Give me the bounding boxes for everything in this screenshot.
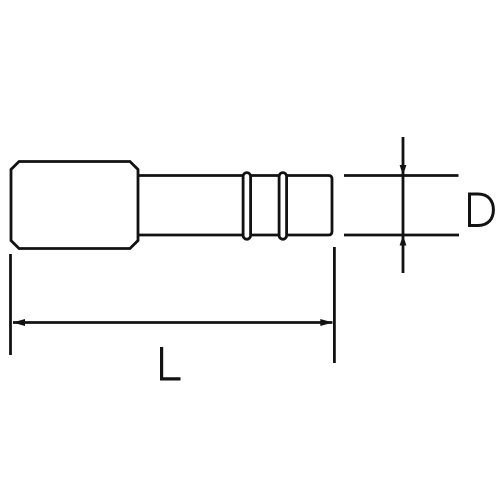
D arrow up [400, 235, 407, 246]
D dimension line [402, 137, 405, 273]
L left extension line [9, 254, 12, 355]
L dimension line [13, 321, 332, 324]
L right extension line [333, 247, 336, 363]
D arrow down [400, 165, 407, 176]
barb ring 2 [279, 173, 287, 240]
L arrow right [320, 319, 333, 326]
hex block body [11, 162, 138, 249]
label D [470, 194, 494, 226]
barb ring 1 [243, 173, 251, 240]
D top extension line [344, 174, 459, 177]
label L [162, 347, 181, 379]
fitting shaft body [138, 176, 332, 236]
L arrow left [13, 319, 26, 326]
D bottom extension line [344, 234, 459, 237]
